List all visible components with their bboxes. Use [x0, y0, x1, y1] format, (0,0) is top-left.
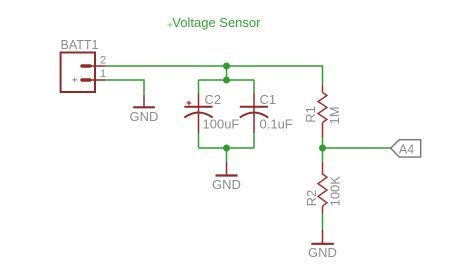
ground symbol GND3 below R2: [311, 230, 334, 244]
wire capacitor top rail: [199, 79, 255, 81]
svg-text:2: 2: [100, 55, 106, 67]
BATT1 plus polarity mark: [72, 78, 77, 83]
value 1M: [327, 106, 342, 124]
wire net VIN top from pin 2 to R1: [106, 66, 323, 85]
resistor R2: [318, 162, 327, 214]
label R1: [303, 106, 318, 123]
svg-text:BATT1: BATT1: [61, 38, 99, 52]
svg-text:C2: C2: [205, 92, 222, 107]
capacitor C2 lead: [198, 94, 200, 134]
capacitor C1 lead: [253, 94, 255, 134]
svg-text:A4: A4: [399, 142, 414, 156]
wire C2 bottom lead: [198, 133, 200, 148]
ground label GND2: [212, 177, 241, 192]
svg-text:GND: GND: [308, 245, 337, 260]
resistor R1: [318, 85, 327, 137]
junction at top rail: [223, 63, 230, 70]
wire C1 bottom lead: [253, 133, 255, 148]
wire divider tap to A4 flag: [323, 147, 391, 149]
svg-text:R2: R2: [304, 190, 319, 207]
ground symbol GND2 below capacitors: [216, 163, 238, 176]
title text Voltage Sensor: [172, 15, 261, 30]
capacitor C1 plates: [240, 107, 268, 118]
label C1: [260, 92, 277, 107]
ground symbol GND1 near battery: [133, 95, 155, 108]
label R2: [304, 190, 319, 207]
connector BATT1 body: [61, 53, 95, 93]
ground label GND1: [130, 109, 159, 124]
BATT1 pin 1 pad: [82, 78, 106, 81]
capacitor C2 plus mark: [187, 101, 192, 106]
label C2: [205, 92, 222, 107]
BATT1 pin 2 pad: [82, 64, 106, 67]
value 100K: [327, 176, 342, 207]
svg-text:1M: 1M: [327, 106, 342, 124]
ground label GND3: [308, 245, 337, 260]
value 0.1uF: [260, 117, 293, 132]
svg-text:100K: 100K: [327, 176, 342, 207]
wire C2 top lead: [198, 80, 200, 94]
origin cross marker: [168, 23, 173, 28]
svg-text:0.1uF: 0.1uF: [260, 117, 293, 132]
svg-text:1: 1: [100, 68, 106, 80]
svg-text:Voltage Sensor: Voltage Sensor: [172, 15, 261, 30]
junction at capacitor bottom rail: [223, 145, 230, 152]
BATT1 pin number 1: [100, 68, 106, 80]
svg-text:100uF: 100uF: [203, 117, 240, 132]
junction at divider tap node A4: [319, 145, 326, 152]
BATT1 pin number 2: [100, 55, 106, 67]
junction at capacitor top rail: [223, 77, 230, 84]
value 100uF: [203, 117, 240, 132]
wire R2 bottom to GND: [322, 214, 324, 230]
wire R1 bottom to R2 top: [322, 137, 324, 162]
wire C1 top lead: [253, 80, 255, 94]
wire capacitor bottom rail: [199, 147, 255, 149]
capacitor C2 plates: [184, 107, 212, 118]
svg-text:GND: GND: [130, 109, 159, 124]
net flag A4 text: [399, 142, 414, 156]
svg-text:GND: GND: [212, 177, 241, 192]
connector BATT1 label: [61, 38, 99, 52]
wire bottom rail to GND: [226, 148, 228, 163]
wire from pin 1 to GND: [106, 80, 144, 95]
wire junction drop to capacitor rail: [226, 66, 228, 80]
svg-text:C1: C1: [260, 92, 277, 107]
net flag A4: [391, 140, 421, 157]
svg-text:R1: R1: [303, 106, 318, 123]
